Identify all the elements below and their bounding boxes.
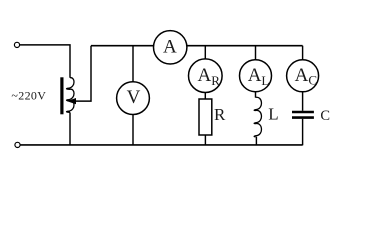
svg-text:R: R — [214, 105, 226, 124]
ammeter A — [154, 31, 187, 64]
wire top-left from terminal to transformer — [20, 45, 70, 78]
wire AC to capacitor — [302, 92, 304, 111]
wire AC branch top — [302, 46, 304, 60]
wire top rail — [91, 45, 303, 47]
svg-text:L: L — [268, 105, 278, 124]
wire AR branch top — [204, 46, 206, 59]
transformer T1 winding — [67, 78, 74, 113]
ammeter AR — [189, 59, 223, 93]
wire bottom rail — [20, 144, 302, 146]
wire AR to resistor — [204, 93, 206, 100]
wire V branch bottom — [132, 115, 134, 146]
wire wiper to top rail — [75, 46, 92, 101]
svg-text:C: C — [320, 108, 330, 124]
voltmeter V — [117, 82, 150, 115]
capacitor C plates — [292, 112, 314, 118]
resistor R — [199, 99, 212, 135]
wire resistor to bottom rail — [204, 135, 206, 145]
wire AL branch top — [255, 46, 257, 60]
svg-text:V: V — [127, 87, 141, 108]
inductor L — [254, 97, 261, 136]
transformer T1 core bar — [60, 77, 63, 114]
wire inductor to bottom rail — [255, 137, 257, 146]
transformer wiper arrow — [67, 98, 76, 104]
terminal top-left — [14, 42, 19, 47]
wire capacitor to bottom rail — [302, 119, 304, 146]
terminal bottom-left — [15, 142, 20, 147]
ammeter AL — [240, 60, 272, 92]
svg-text:~220V: ~220V — [11, 89, 46, 103]
wire transformer bottom lead — [69, 112, 71, 145]
svg-text:A: A — [163, 37, 177, 58]
wire AL to inductor — [255, 92, 257, 98]
wire V branch top — [132, 46, 134, 82]
ammeter AC — [287, 60, 319, 92]
